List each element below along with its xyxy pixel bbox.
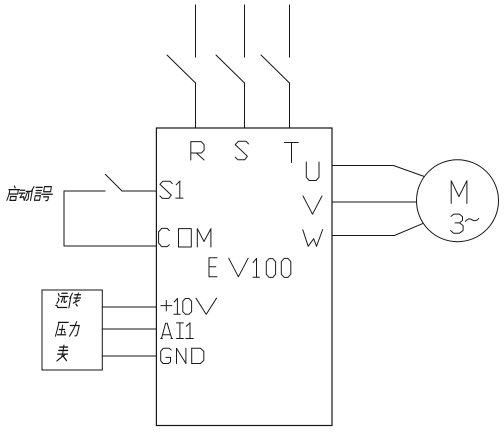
annotation 压 (pressure) [56,322,69,336]
wire R-phase supply drop [195,5,197,57]
annotation 表 (gauge) [57,345,69,361]
label 3~ motor phases [451,214,463,223]
wire T-phase to inverter input [289,83,291,128]
label S [235,141,248,159]
label V [303,196,322,214]
wire switch to terminal S1 [122,190,156,192]
wire gauge to +10V [102,306,156,308]
label EV100 [209,258,217,277]
label GND [161,348,172,363]
motor M1 circle [417,160,499,242]
label +10V [161,305,172,307]
breaker QS pole T blade [261,55,290,83]
pressure gauge PG outline [42,290,102,370]
breaker QS pole R blade [167,55,196,83]
wire S-phase supply drop [244,5,246,57]
label R [191,142,204,160]
wire W output [332,223,423,235]
annotation 力 [69,322,80,336]
wire T-phase supply drop [289,5,291,57]
wire gauge to AI1 [102,328,156,330]
annotation 动 (signal) [18,190,31,200]
annotation 传 [68,293,81,308]
wire return to terminal COM [64,245,156,247]
wire start-signal to switch [64,190,105,192]
annotation 启 (start) [7,186,20,200]
label W [303,230,323,247]
label S1 [160,181,172,198]
label U [306,162,319,181]
wire U output [332,166,424,177]
annotation 远 (remote) [56,293,69,307]
wire V output [332,201,417,203]
annotation 信 [30,187,42,201]
wire R-phase to inverter input [195,83,197,128]
inverter U1 EV100 outline [156,128,332,426]
annotation 号 [41,187,54,201]
label COM [159,228,170,246]
wire gauge to GND [102,355,156,357]
label T [284,142,298,144]
label AI1 [161,323,173,338]
breaker QS pole S blade [216,55,245,83]
label M motor [451,181,467,204]
wire S1 branch left drop [63,191,65,246]
wire S-phase to inverter input [244,83,246,128]
switch S1 blade [105,174,122,191]
